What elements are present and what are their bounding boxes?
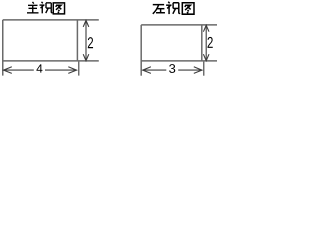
- title 主视图 (front view label): [27, 2, 65, 14]
- label 3: [169, 64, 175, 73]
- top edge + extension: [141, 24, 217, 26]
- left arrowhead: [143, 67, 151, 74]
- horizontal dimension line (4): [3, 62, 78, 76]
- up arrowhead: [203, 25, 209, 31]
- left edge + extension down: [2, 20, 4, 76]
- top edge + extension: [3, 19, 99, 21]
- background: [0, 0, 218, 81]
- label 2 (right): [208, 37, 213, 48]
- down arrowhead: [203, 54, 209, 61]
- bottom edge + extension: [3, 60, 99, 62]
- right edge: [201, 25, 203, 61]
- right arrowhead: [194, 67, 202, 74]
- char 图: [53, 3, 64, 14]
- horizontal dimension line (3): [143, 62, 204, 76]
- right rectangle (side view): [141, 25, 217, 76]
- right extension tick: [78, 62, 80, 76]
- down arrowhead: [83, 54, 89, 61]
- up arrowhead: [83, 20, 89, 27]
- char 视: [166, 2, 180, 14]
- right edge: [76, 20, 78, 61]
- title 左视图 (side view label): [153, 2, 194, 15]
- label 2 (left): [88, 37, 93, 48]
- left edge + extension down: [140, 25, 142, 76]
- left arrowhead: [4, 67, 12, 74]
- right arrowhead: [68, 67, 76, 74]
- char 左: [153, 5, 165, 14]
- right vertical dimension line (2): [203, 25, 209, 60]
- char 图: [182, 3, 194, 14]
- right extension tick: [203, 62, 205, 76]
- label 4: [36, 64, 42, 72]
- char 视: [40, 2, 53, 14]
- bottom edge + extension: [141, 60, 217, 62]
- char 主: [27, 2, 39, 13]
- left vertical dimension line (2): [83, 20, 89, 60]
- left rectangle (front view): [3, 20, 99, 76]
